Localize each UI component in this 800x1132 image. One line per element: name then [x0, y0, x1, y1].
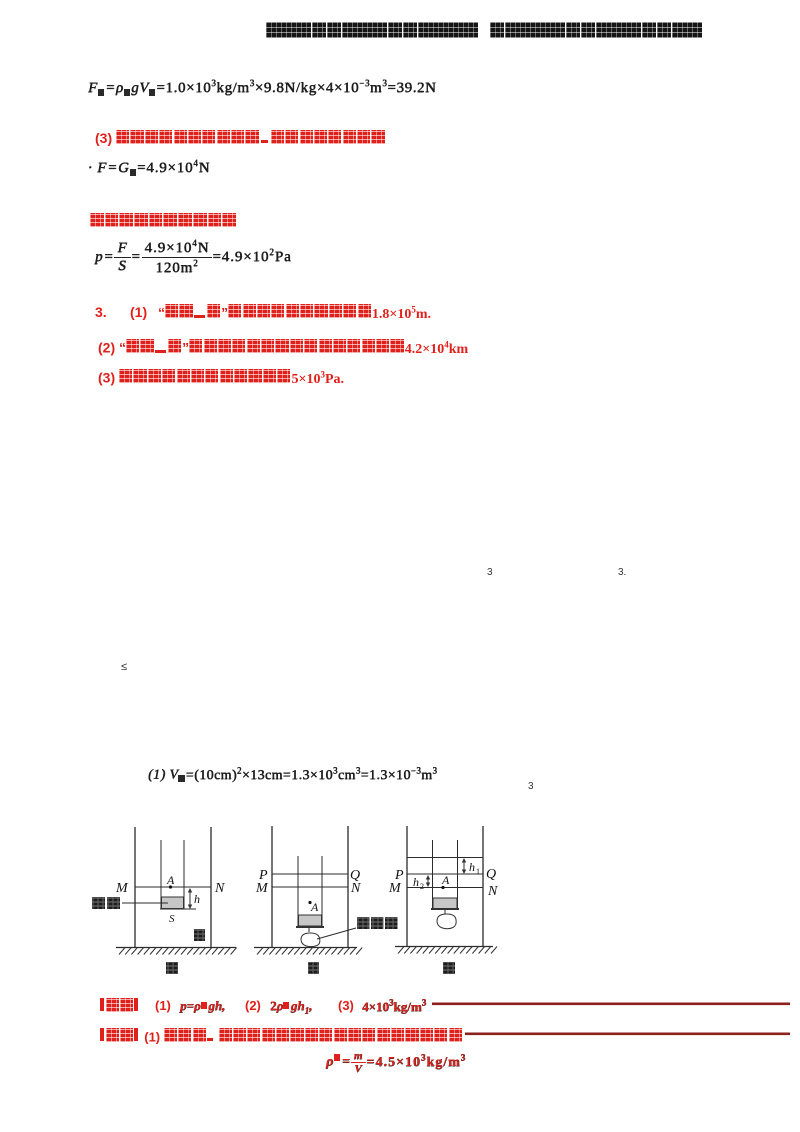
- red item 3.(1): [95, 304, 107, 320]
- stray mark a: [487, 567, 493, 578]
- container jia outer walls: [134, 827, 136, 948]
- svg-text:S: S: [169, 913, 175, 925]
- red item (2): [98, 339, 468, 358]
- label yi: [308, 962, 319, 974]
- label jia: [166, 962, 178, 974]
- svg-text:2: 2: [420, 882, 424, 891]
- svg-text:Q: Q: [486, 867, 496, 882]
- xisha label (fine sand): [92, 897, 105, 909]
- red heading line: [90, 213, 237, 231]
- red item (3): [98, 369, 344, 388]
- beaker jia: [160, 840, 162, 909]
- svg-text:h: h: [194, 892, 200, 906]
- buoyancy formula F = rho g V: [88, 78, 436, 98]
- svg-text:A: A: [166, 873, 175, 887]
- sand block jia: [162, 897, 184, 909]
- dot A yi: [308, 901, 311, 904]
- red rule 1: [432, 1003, 790, 1006]
- svg-text:N: N: [350, 881, 361, 896]
- sand block yi: [299, 915, 322, 926]
- formula F = G: [88, 158, 210, 178]
- top water line bing: [407, 857, 483, 859]
- svg-text:A: A: [310, 900, 319, 914]
- line P-Q yi: [272, 873, 348, 875]
- label bing: [443, 962, 455, 974]
- svg-text:A: A: [441, 873, 450, 887]
- stray mark c: [121, 661, 127, 673]
- stray digit: [528, 781, 534, 792]
- ground jia: [116, 947, 236, 949]
- red rule 2: [465, 1033, 790, 1036]
- answer line: [100, 998, 138, 1014]
- jinshukuai label (metal block): [357, 917, 370, 929]
- pressure formula p = F/S fraction: [95, 238, 292, 277]
- shui label (water) jia: [194, 929, 205, 941]
- svg-text:N: N: [487, 884, 498, 899]
- displaced volume formula: [148, 765, 437, 784]
- sand block bing: [433, 898, 457, 909]
- line P-Q bing: [407, 873, 483, 875]
- h arrow jia: [189, 889, 191, 908]
- svg-text:h: h: [413, 875, 419, 889]
- document title (bold Chinese): [266, 22, 702, 40]
- svg-text:1: 1: [476, 867, 480, 876]
- stray mark b: [618, 567, 626, 578]
- svg-text:h: h: [469, 860, 475, 874]
- container yi outer walls: [271, 826, 273, 948]
- container bing outer walls: [406, 826, 408, 947]
- ground bing: [395, 946, 493, 948]
- line M-N bing: [407, 887, 483, 889]
- line M-N yi: [272, 886, 348, 888]
- analysis line: [100, 1028, 463, 1044]
- svg-text:M: M: [115, 881, 129, 896]
- svg-text:M: M: [388, 881, 402, 896]
- water line M-N jia: [135, 886, 211, 888]
- metal lump bing: [444, 910, 446, 914]
- dot A jia: [169, 885, 172, 888]
- beaker yi: [297, 856, 299, 927]
- ground yi: [254, 947, 357, 949]
- h1 arrow bing: [463, 859, 465, 873]
- svg-text:N: N: [214, 881, 225, 896]
- h2 arrow bing: [427, 876, 429, 886]
- red answer line (3): [95, 130, 386, 146]
- dot A bing: [441, 886, 444, 889]
- svg-text:M: M: [255, 881, 269, 896]
- beaker bing: [432, 840, 434, 909]
- metal lump yi: [308, 928, 310, 932]
- final red formula: [326, 1050, 466, 1075]
